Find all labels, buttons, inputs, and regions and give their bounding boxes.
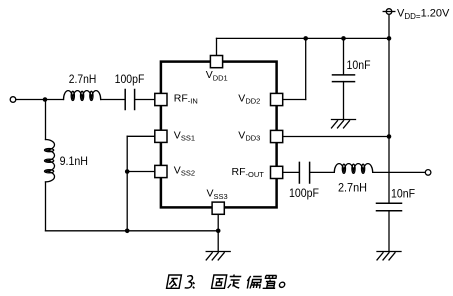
pin VDD1 [210, 56, 222, 68]
wire supply column down to VDD3 [388, 38, 390, 136]
wire C3 to L3 [310, 171, 334, 173]
IC U1 body [161, 62, 277, 208]
inductor L3 2.7nH [334, 164, 372, 173]
capacitor C4 10nF [377, 202, 402, 204]
wire rail to C2 [343, 38, 345, 74]
svg-text:10nF: 10nF [391, 187, 415, 201]
wire C2 to ground [343, 82, 345, 120]
input terminal [10, 97, 16, 103]
node rail junction B [341, 36, 346, 41]
svg-text:100pF: 100pF [289, 186, 319, 200]
wire RF_OUT to C3 [283, 171, 299, 173]
pin VDD2 [271, 93, 283, 105]
wire VSS2 to column [127, 171, 155, 173]
wire VDD1 up [216, 38, 218, 55]
ground below C4 [377, 252, 401, 260]
wire C4 to ground [388, 211, 390, 252]
glyph 定 [228, 275, 242, 289]
glyph 3 [185, 276, 194, 288]
ground below C2 [332, 120, 356, 128]
wire VDD3 pin to column [283, 136, 389, 138]
inductor L2 9.1nH [46, 140, 55, 182]
node bottom-left junction [125, 229, 130, 234]
capacitor C1 100pF [124, 90, 126, 110]
wire supply column [388, 14, 390, 38]
svg-text:100pF: 100pF [115, 72, 145, 86]
wire column down to C4 [388, 137, 390, 204]
wire to VDD2 pin [283, 99, 306, 101]
svg-text:VDD=1.20V: VDD=1.20V [397, 8, 450, 21]
wire VSS1 to column [127, 135, 155, 137]
wire L1 to C1 [101, 99, 125, 101]
wire VSS3 down [217, 214, 219, 252]
glyph 固 [212, 275, 227, 288]
svg-text:9.1nH: 9.1nH [60, 154, 88, 168]
svg-text:2.7nH: 2.7nH [69, 72, 97, 86]
pin VSS1 [155, 130, 167, 142]
svg-text:10nF: 10nF [347, 58, 371, 72]
caption 图 3: 固定偏置。 [167, 275, 287, 289]
ground below VSS3 [206, 252, 230, 260]
pin RF_IN [155, 93, 167, 105]
inductor L1 2.7nH [64, 91, 101, 100]
wire VSS column down [126, 136, 128, 231]
output terminal [425, 170, 431, 176]
glyph fullstop [279, 282, 285, 287]
wire 9.1nH to bottom rail [45, 182, 47, 231]
wire rail down to VDD2 [305, 38, 307, 99]
pin VDD3 [271, 130, 283, 142]
node VSS3 ground junction [216, 229, 221, 234]
glyph 置 [263, 276, 278, 289]
power terminal VDD [386, 9, 392, 15]
pin VSS3 [212, 202, 224, 214]
node VSS2 junction [125, 169, 130, 174]
wire top rail [217, 37, 390, 39]
node VDD3 junction [387, 134, 392, 139]
wire input to junction [16, 99, 64, 101]
wire L3 to output [373, 171, 426, 173]
svg-text:2.7nH: 2.7nH [338, 181, 367, 195]
capacitor C2 10nF [333, 74, 355, 76]
glyph colon [192, 282, 196, 288]
pin VSS2 [155, 165, 167, 177]
wire C1 to RF_IN pin [135, 99, 155, 101]
node rail junction A [303, 36, 308, 41]
pin RF_OUT [271, 166, 283, 178]
capacitor C3 100pF [298, 162, 300, 183]
glyph 图 [167, 275, 182, 288]
glyph 偏 [246, 276, 262, 289]
node rail junction C [387, 36, 392, 41]
wire junction down to 9.1nH [45, 100, 47, 140]
node input junction [43, 97, 48, 102]
wire bottom rail [46, 230, 219, 232]
